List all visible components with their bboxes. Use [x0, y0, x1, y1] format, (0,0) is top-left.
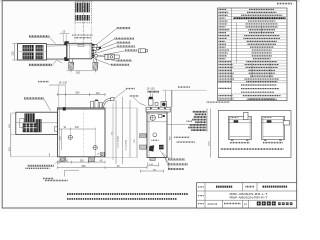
- note line 2: [67, 198, 177, 200]
- plan joint bracket lower: [64, 56, 69, 61]
- installation square 1 caption: [230, 142, 250, 144]
- side gas valve dark blob: [149, 145, 154, 151]
- exhaust top label row 2: [75, 37, 92, 39]
- duct projection line right: [90, 23, 92, 44]
- dim between front and side views: [105, 167, 147, 169]
- front bottom dim tier1: [57, 161, 105, 163]
- side pump compartment lines: [147, 113, 167, 115]
- title: scale cell: [224, 203, 241, 205]
- title block left labels: [198, 186, 204, 188]
- gap lower small labels: [174, 136, 189, 138]
- front right dim line 1: [115, 100, 117, 164]
- connection label 1: [117, 27, 131, 29]
- installation square 1: [228, 117, 251, 140]
- title block row3 dividers: [222, 200, 224, 208]
- connection label 4: [117, 45, 136, 47]
- Rinnai kabushikigaisha text: [278, 202, 281, 205]
- front bottom dim tier2: [57, 167, 105, 169]
- front bottom-right drain detail: [100, 152, 104, 157]
- connection label 7: [111, 64, 130, 66]
- front feet (hatched): [60, 157, 65, 162]
- side right leader label stack: [193, 111, 207, 113]
- side stack left small note: [187, 120, 193, 122]
- title block label column: [204, 183, 206, 208]
- duct projection line left: [74, 23, 76, 44]
- side bottom dim 190: [140, 170, 163, 172]
- plan view feet (hatched): [70, 59, 73, 62]
- plan duct transition piece: [46, 44, 66, 59]
- label under front grille row1: [28, 165, 54, 167]
- svg-text:220: 220: [12, 51, 15, 56]
- leader line under phi text: [49, 84, 66, 86]
- title block row1 dividers: [242, 183, 244, 191]
- front left vertical dim (grille): [10, 113, 12, 135]
- front grille inner outline: [20, 119, 24, 128]
- hose label with leader: [126, 88, 135, 90]
- side bottom dim 144: [148, 165, 159, 167]
- spec table outer box: [218, 8, 288, 101]
- svg-text:5×1.5(655): 5×1.5(655): [125, 140, 128, 150]
- side fitting right with dark center: [161, 102, 167, 108]
- side top plate assembly: [146, 107, 170, 112]
- bath circulation bracket fitting: [105, 54, 114, 59]
- side view body outline: [147, 112, 167, 158]
- tier1 leader diagonals: [55, 159, 62, 164]
- side small fitting mid: [155, 102, 158, 105]
- side view top hatched label: [148, 91, 160, 93]
- svg-text:590: 590: [82, 165, 87, 168]
- plan body small top detail: [78, 44, 84, 46]
- installation square 2 right tab: [283, 121, 289, 125]
- front lower-left small labels: [43, 178, 54, 180]
- dim text phi above front view: [38, 81, 49, 83]
- internal vertical dim lines: [61, 129, 63, 150]
- connection label 6: [117, 59, 133, 61]
- title block outer: [197, 183, 297, 208]
- exhaust top label row 1: [72, 34, 92, 36]
- side pump circle: [150, 115, 155, 120]
- svg-text:320: 320: [75, 126, 80, 129]
- side stack boundary vertical line: [206, 109, 208, 132]
- spec table horizontal rules: [218, 10, 288, 12]
- connection fittings cluster: [94, 44, 97, 47]
- notes below spec table: [247, 98, 277, 100]
- side left pipe fittings (stacked plates): [140, 134, 147, 138]
- exhaust duct top view (dashed outline): [75, 1, 91, 23]
- side right vertical dim: [171, 91, 173, 158]
- front view body outline: [57, 108, 105, 157]
- front body double top edge: [57, 108, 105, 110]
- side view top dim text right: [178, 86, 190, 88]
- installation square 2: [262, 117, 285, 140]
- connection label 3: [117, 41, 131, 43]
- plan body panel seam lines: [67, 43, 69, 59]
- spec table caption: [277, 3, 292, 5]
- front right dim extension lines: [105, 107, 138, 109]
- front right dim line 3: [129, 100, 131, 158]
- Rinnai logo text: [257, 202, 261, 206]
- label exhaust top with leader: [29, 35, 50, 37]
- side top fitting vertical guides: [149, 94, 151, 100]
- side pump side box: [158, 115, 162, 118]
- installation views box: [218, 111, 291, 158]
- svg-text:RBF-A80S2N-RR-R-T: RBF-A80S2N-RR-R-T: [230, 196, 268, 200]
- lower-left label leader: [64, 170, 66, 176]
- internal horizontal dim 94 / 320: [59, 128, 95, 130]
- spec table row texts: [219, 8, 227, 10]
- installation square 2 dark detail: [267, 120, 272, 122]
- svg-text:160: 160: [76, 72, 81, 75]
- side foot (hatched): [150, 157, 155, 160]
- svg-text:120: 120: [96, 92, 101, 95]
- front mounting hole upper-left: [68, 135, 72, 139]
- label below grille: [29, 64, 52, 66]
- side small text (457): [152, 139, 159, 141]
- mounting label near side view: [130, 95, 139, 97]
- svg-text:4.5×1.5(605): 4.5×1.5(605): [117, 136, 120, 148]
- overflow hose curve: [102, 99, 111, 108]
- front top pipe stubs: [91, 101, 94, 108]
- front body double left edge: [58, 108, 60, 157]
- side fitting cylinder with black cap: [149, 97, 153, 99]
- side leader labels bottom right: [160, 151, 170, 159]
- installation square 1 dark detail: [234, 120, 239, 122]
- svg-text:15~130: 15~130: [147, 88, 156, 91]
- drawing frame border: [2, 1, 296, 208]
- duct louvre band lower: [75, 15, 77, 21]
- plan joint bracket upper: [64, 41, 69, 46]
- spec table sub column rule: [236, 23, 238, 64]
- label under front grille row2: [26, 167, 50, 169]
- projection dim line above front view: [57, 93, 105, 95]
- installation square 1 top tab: [244, 112, 248, 119]
- front right dim line 4: [136, 108, 138, 158]
- feet dimension line 160: [67, 70, 98, 72]
- front grille lower cell band: [23, 123, 37, 132]
- side burner dark blob: [159, 145, 164, 150]
- front left side small box: [55, 127, 58, 131]
- grille label leader tick: [49, 154, 51, 157]
- spec table mid dividers lower rows: [251, 63, 253, 78]
- connection dark fittings: [92, 44, 94, 46]
- side top extension line: [162, 89, 207, 91]
- plan grille centre gap: [18, 51, 47, 53]
- note line 1: [67, 193, 188, 195]
- hook fitting icon right of label 5: [139, 49, 146, 53]
- title: product name: [263, 186, 288, 188]
- front centre line faint: [82, 108, 84, 157]
- front right dim line 2: [122, 97, 124, 164]
- title block row rules: [197, 190, 297, 192]
- spec table mid divider rows 6-9: [261, 25, 263, 34]
- front body corner blob: [63, 107, 66, 110]
- connection label 2: [115, 37, 135, 39]
- duct centre line: [82, 1, 84, 43]
- svg-text:2016.06: 2016.06: [208, 202, 218, 206]
- side body inner seam: [148, 112, 150, 158]
- svg-text:15~130: 15~130: [59, 81, 68, 84]
- front grille louvre blocks: [25, 113, 36, 122]
- plan grille louvre blocks: [23, 45, 34, 51]
- installation square 2 caption: [263, 142, 283, 144]
- svg-text:390: 390: [75, 92, 80, 95]
- extension lines down to front body: [58, 85, 60, 108]
- vertical dim from hole2 to bottom: [94, 150, 96, 157]
- plan view body: [67, 43, 92, 59]
- side pilot hole circle: [153, 133, 157, 137]
- gap vertical dim with rotated text: [209, 109, 211, 158]
- side horizontal dim line across gap: [167, 124, 207, 126]
- front left vertical dim (lower): [10, 135, 12, 157]
- hose end fitting: [111, 97, 114, 100]
- installation box bullet note: [221, 148, 283, 150]
- title: hinmei label: [246, 186, 255, 188]
- connection label 5 with fitting icon: [125, 49, 138, 51]
- grille leader line lower right: [56, 60, 62, 63]
- title: drawing name: [216, 186, 233, 188]
- front view exhaust grille outer: [16, 112, 58, 134]
- front mounting hole lower-right: [93, 146, 97, 150]
- left dimension of plan view: [13, 44, 15, 60]
- leader lines to connection labels: [96, 29, 116, 45]
- duct louvre band upper: [75, 3, 77, 13]
- installation square 2 feet: [264, 140, 266, 141]
- installation square 1 feet: [231, 140, 233, 141]
- plan view exhaust grille outer box: [18, 44, 47, 60]
- front right dim line 0: [112, 103, 114, 160]
- spec table label column rule: [231, 8, 233, 101]
- exhaust cap label with leader: [24, 97, 44, 99]
